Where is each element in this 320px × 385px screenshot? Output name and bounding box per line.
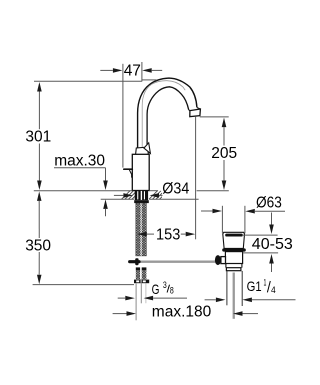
max.30 up arrow (deck underside) [103,199,108,209]
dim G3/8 right arrow [144,296,154,301]
svg-text:G: G [152,281,160,297]
dim 47 extension line right (spout centerline) [141,62,143,82]
dim G1 1/4 right arrow [242,298,252,303]
faucet spout inner curve [147,87,189,148]
dim 350 down arrow [37,275,42,285]
dim O63 left arrow [213,209,223,214]
supply studs (threaded) [136,267,140,270]
dim 153 right arrow [186,232,196,237]
svg-text:G1: G1 [247,278,262,294]
countertop deck top line [34,190,133,192]
dim O34 right arrow [150,193,160,198]
svg-text:47: 47 [124,62,141,79]
threaded shank with hatch [136,203,147,256]
dim max.180 right arrow [233,311,243,316]
drain flange lip [222,248,246,251]
faucet shank through deck (dark) [135,190,148,200]
svg-text:1: 1 [264,278,267,289]
lever wedge on top of cap [144,143,151,154]
dim 350 up arrow [37,191,42,201]
dim 205 down arrow [222,181,227,191]
faucet body [132,154,149,190]
rod left cross fitting [128,260,141,263]
side lever bar pointing left [124,168,133,170]
svg-text:350: 350 [25,237,51,254]
dim 301 top extension line (spout top) [34,80,142,82]
drain washer band [226,268,241,271]
dim 47 extension line left (lever tip) [122,64,124,168]
dim O63 extension lines [221,206,223,234]
svg-text:Ø34: Ø34 [162,181,189,198]
svg-text:4: 4 [271,285,276,296]
max.30 down arrow [103,181,108,191]
drain plug bar [225,234,243,237]
max.30 leader [54,167,106,169]
stud nuts [134,280,149,284]
dim 350 bottom extension line [33,284,134,286]
dim O63 right arrow [245,209,255,214]
svg-text:301: 301 [25,129,51,146]
deck section hatching [122,191,169,200]
svg-text:205: 205 [211,145,237,162]
svg-text:max.30: max.30 [54,153,105,170]
dim 47 right arrow [142,68,152,73]
cartridge cap [136,147,149,154]
dim G3/8 left arrow [125,296,135,301]
svg-text:3: 3 [163,280,167,291]
dim 47 left arrow [113,68,123,73]
dim G1 1/4 left arrow [216,298,226,303]
supply connection lines [135,284,137,321]
ball joint knob [215,255,221,265]
svg-text:Ø63: Ø63 [256,195,282,212]
spout outlet aerator [189,108,201,111]
spout outlet centerline / 153 extension [195,117,197,240]
pop-up rod horizontal [141,261,216,263]
clevis box [221,257,226,264]
svg-text:40-53: 40-53 [252,236,293,253]
svg-text:8: 8 [170,286,174,297]
svg-text:max.180: max.180 [152,303,212,320]
dim 40-53 down arrow [269,225,274,235]
dim 40-53 extension lines [242,234,278,236]
drain body [225,252,242,264]
dim 40-53 up arrow [269,254,274,264]
drain tailpipe [226,271,228,305]
dim 301 up arrow [37,82,42,92]
dim 301 down arrow [37,181,42,191]
dim 205 up arrow [222,118,227,128]
spout chrome highlight line [142,81,185,150]
dim 205 top extension line (outlet level) [200,116,229,118]
faucet spout outer curve [138,78,197,148]
dim 153 left arrow [137,232,147,237]
svg-text:153: 153 [156,227,180,244]
countertop deck bottom line [101,198,134,200]
mounting nut under deck [134,200,149,203]
dim max.180 left arrow [127,311,137,316]
drain flange dome [223,232,245,248]
drain inner rod [233,273,235,319]
dim O34 left arrow [123,193,132,198]
